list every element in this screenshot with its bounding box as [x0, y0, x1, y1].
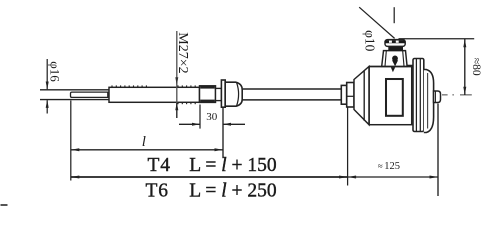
svg-text:L = l + 250: L = l + 250 [189, 180, 276, 201]
svg-text:φ10: φ10 [362, 30, 377, 52]
svg-text:φ16: φ16 [47, 61, 62, 82]
svg-text:l: l [142, 134, 146, 150]
svg-text:T4: T4 [148, 155, 171, 176]
svg-text:30: 30 [206, 111, 218, 123]
svg-text:M27×2: M27×2 [175, 32, 190, 73]
svg-text:T6: T6 [146, 180, 169, 201]
svg-text:L = l + 150: L = l + 150 [189, 155, 276, 176]
svg-text:≈80: ≈80 [470, 58, 482, 76]
svg-text:≈125: ≈125 [378, 161, 400, 172]
